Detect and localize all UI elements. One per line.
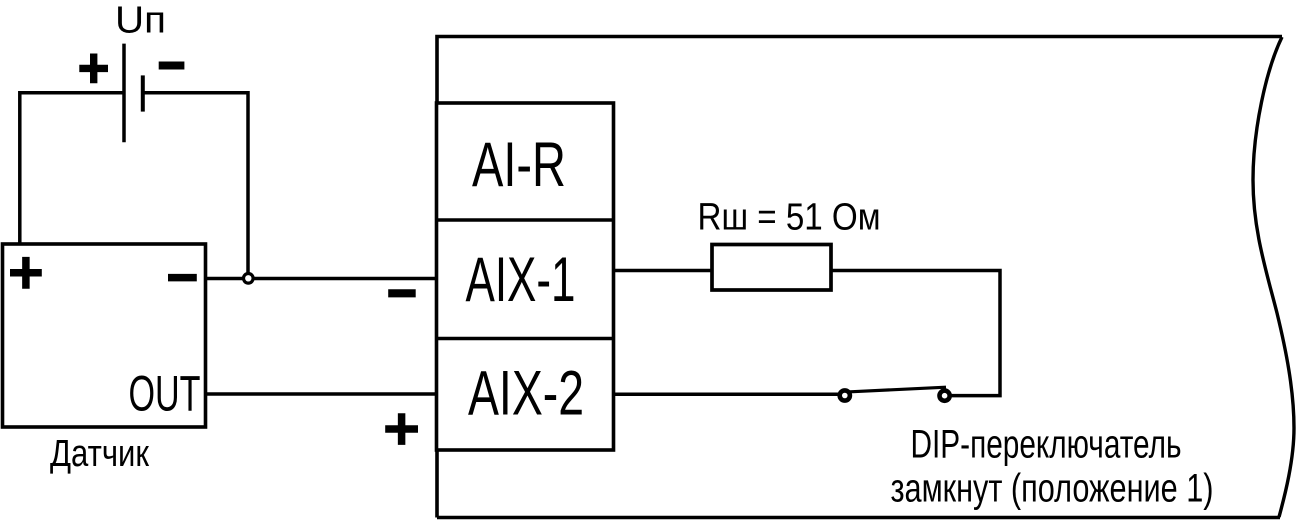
svg-text:Uп: Uп	[115, 0, 166, 42]
svg-text:DIP-переключатель: DIP-переключатель	[911, 423, 1182, 467]
svg-text:Датчик: Датчик	[50, 433, 149, 475]
svg-text:Rш = 51 Ом: Rш = 51 Ом	[698, 197, 881, 239]
svg-text:AI-R: AI-R	[472, 130, 566, 200]
svg-text:замкнут (положение 1): замкнут (положение 1)	[891, 467, 1214, 511]
svg-text:AIX-2: AIX-2	[468, 359, 584, 429]
svg-text:OUT: OUT	[129, 366, 201, 422]
svg-text:AIX-1: AIX-1	[466, 245, 576, 315]
